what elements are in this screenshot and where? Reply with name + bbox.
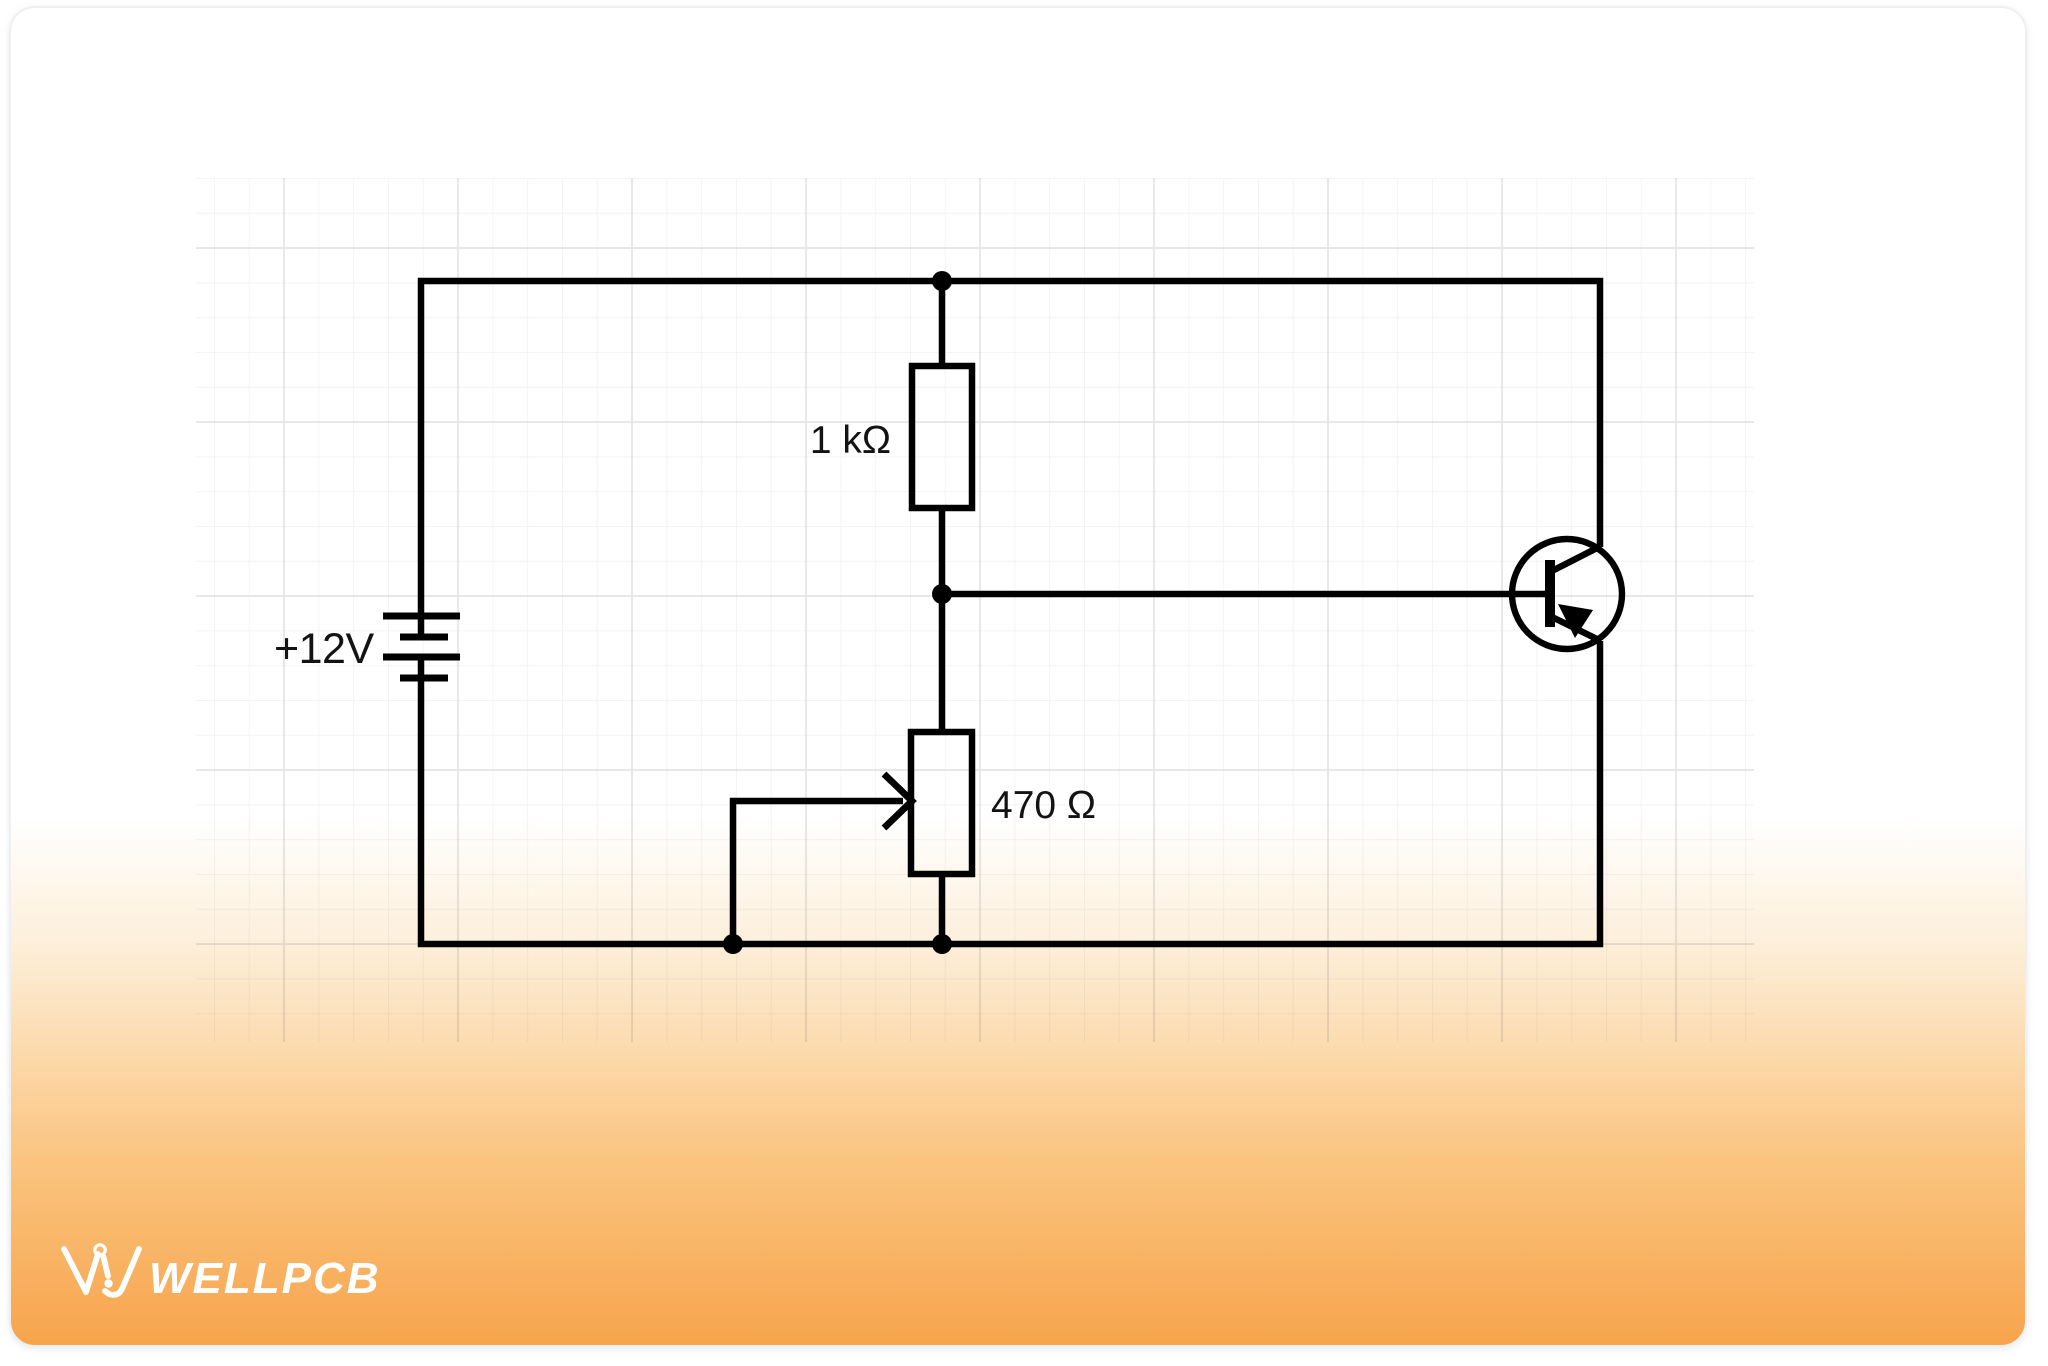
wire top loop: left upper + top + right upper <box>421 281 1600 637</box>
transistor base bar <box>1545 560 1555 627</box>
wire resistor top lead <box>939 281 946 366</box>
logo W mark <box>64 1245 139 1295</box>
potentiometer wiper arrowhead <box>884 774 912 828</box>
battery V1 +12V <box>383 616 460 678</box>
potentiometer R2 470 body <box>911 732 972 874</box>
wire base from divider to transistor <box>942 591 1546 598</box>
transistor emitter arrow (PNP) <box>1558 604 1593 638</box>
transistor Q1 circle <box>1512 539 1622 649</box>
logo via dot <box>104 1279 112 1287</box>
grid minor <box>196 178 1754 1042</box>
transistor emitter line <box>1550 616 1601 641</box>
svg-text:WELLPCB: WELLPCB <box>149 1254 381 1303</box>
svg-text:470 Ω: 470 Ω <box>991 784 1096 827</box>
transistor collector line <box>1550 546 1601 572</box>
svg-text:+12V: +12V <box>274 625 374 673</box>
resistor R1 1k <box>912 366 972 508</box>
grid major <box>196 178 1754 1042</box>
wire resistor-pot middle segment <box>939 508 946 732</box>
wire bottom loop: left lower + bottom + right lower <box>421 641 1600 944</box>
junction node top <box>932 271 952 291</box>
junction node base <box>932 584 952 604</box>
svg-text:1 kΩ: 1 kΩ <box>810 419 891 462</box>
wire pot bottom lead <box>939 874 946 944</box>
junction node wiper-ground <box>723 934 743 954</box>
junction node pot-ground <box>932 934 952 954</box>
wire pot wiper arm <box>733 801 903 944</box>
